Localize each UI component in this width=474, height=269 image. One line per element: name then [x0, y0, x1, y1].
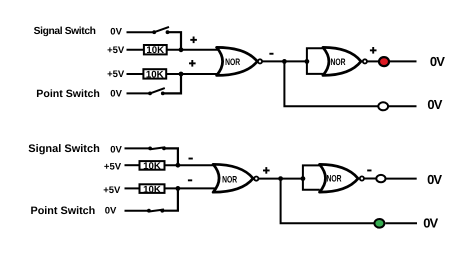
switch SW1 (signal, open) left contact: [152, 30, 156, 34]
wire U4 output to indicator D3: [364, 178, 376, 180]
wire node N7 branch to LED D4: [281, 179, 374, 224]
NOR gate U1 (top left): [217, 47, 258, 75]
NOR gate U4 (bottom right): [320, 164, 359, 192]
NOR gate U2 (top right): [323, 47, 361, 75]
resistor R1 10K: [144, 45, 167, 54]
resistor R4 10K: [140, 184, 165, 193]
svg-text:NOR: NOR: [225, 56, 240, 67]
svg-text:+5V: +5V: [103, 185, 121, 196]
svg-text:0V: 0V: [105, 206, 117, 217]
svg-text:Point Switch: Point Switch: [36, 88, 100, 100]
wire +5V to resistor R2: [127, 73, 145, 75]
resistor R3 10K: [140, 161, 165, 170]
svg-text:10K: 10K: [146, 45, 164, 56]
wire U2 output to LED D1: [367, 60, 378, 62]
svg-text:Signal Switch: Signal Switch: [34, 26, 96, 37]
switch SW2 (point, open) left contact: [148, 92, 152, 96]
switch SW4 right contact: [160, 209, 164, 213]
switch SW3 blade (closed): [150, 147, 165, 149]
svg-text:NOR: NOR: [330, 56, 345, 67]
wire 0V to switch SW3: [125, 147, 151, 149]
minus sign at U3 input 2: [188, 179, 192, 181]
wire SW2 to node N2: [163, 74, 181, 93]
svg-text:0V: 0V: [427, 97, 442, 112]
svg-text:Signal Switch: Signal Switch: [28, 143, 100, 155]
svg-text:0V: 0V: [110, 27, 122, 38]
wire indicator D3 to 0V: [386, 178, 417, 180]
minus sign at U3 input 1: [189, 158, 193, 160]
wire U3 output to U4 input node: [259, 178, 302, 180]
resistor R2 10K: [143, 69, 166, 78]
svg-text:10K: 10K: [146, 69, 164, 80]
svg-text:0V: 0V: [423, 216, 438, 231]
node N8 dot at U4 input tie: [301, 176, 306, 181]
NOR gate U3 (bottom left): [213, 164, 253, 192]
svg-text:Point Switch: Point Switch: [31, 205, 96, 217]
svg-text:10K: 10K: [143, 184, 161, 195]
svg-text:+5V: +5V: [104, 162, 122, 173]
svg-text:NOR: NOR: [326, 173, 341, 184]
plus sign at U1 input 1: [190, 37, 197, 44]
wire resistor R3 to NOR U3 input 1: [164, 164, 218, 166]
U4 output bubble: [360, 176, 364, 180]
svg-text:0V: 0V: [110, 89, 122, 100]
wire 0V to switch SW2: [127, 92, 151, 94]
indicator D2 (open / off): [378, 102, 388, 110]
wire resistor R4 to NOR U3 input 2: [164, 187, 218, 189]
wire +5V to resistor R3: [125, 164, 141, 166]
wire indicator D2 to 0V: [389, 105, 417, 107]
wire +5V to resistor R4: [125, 187, 141, 189]
svg-text:+5V: +5V: [107, 45, 125, 56]
svg-text:10K: 10K: [143, 161, 161, 172]
svg-text:0V: 0V: [427, 172, 442, 187]
node N2 junction dot: [179, 72, 184, 77]
minus sign at U4 output: [367, 170, 371, 172]
switch SW2 right contact: [161, 92, 165, 96]
svg-text:0V: 0V: [430, 54, 445, 69]
switch SW1 blade (open): [154, 27, 169, 32]
wire 0V to switch SW4: [125, 210, 149, 212]
svg-text:+5V: +5V: [107, 69, 125, 80]
wire SW3 to node N5: [164, 148, 178, 165]
plus sign at U1 input 2: [189, 60, 196, 67]
wire U4 input tie bracket: [303, 165, 320, 189]
switch SW3 (signal, closed) left contact: [148, 147, 152, 151]
wire U1 output to U2 input node: [262, 60, 306, 62]
switch SW4 blade (closed): [149, 210, 164, 212]
switch SW1 right contact: [166, 30, 170, 34]
node N4 dot at U2 input tie: [305, 59, 310, 64]
minus sign at U1 output: [269, 53, 273, 55]
node N7 junction dot (branch to green indicator): [278, 176, 283, 181]
switch SW3 right contact: [162, 147, 166, 151]
node N3 junction dot (branch to open indicator): [282, 59, 287, 64]
node N6 junction dot: [176, 186, 181, 191]
wire node N3 branch to open indicator: [284, 61, 378, 106]
switch SW4 (point, closed) left contact: [147, 209, 151, 213]
wire resistor R2 to NOR U1 input 2: [166, 73, 222, 75]
wire 0V to switch SW1: [127, 31, 155, 33]
plus sign at U2 output: [370, 47, 377, 54]
switch SW2 blade (open): [150, 88, 165, 93]
wire LED D4 to 0V: [386, 222, 418, 224]
indicator D3 (open / off): [376, 175, 385, 182]
LED D1 (red, on): [379, 57, 389, 66]
U2 output bubble: [363, 59, 367, 63]
wire LED D1 to 0V: [390, 60, 417, 62]
node N1 junction dot: [179, 47, 184, 52]
svg-text:NOR: NOR: [222, 173, 237, 184]
wire SW1 to node N1: [168, 32, 182, 50]
wire resistor R1 to NOR U1 input 1: [166, 49, 221, 51]
svg-text:0V: 0V: [110, 144, 122, 155]
wire SW4 to node N6: [162, 188, 178, 210]
plus sign at U3 output: [263, 167, 270, 174]
node N5 junction dot: [176, 163, 181, 168]
U1 output bubble: [258, 59, 262, 63]
LED D4 (green, on): [374, 219, 384, 228]
wire U2 input tie bracket: [307, 48, 323, 74]
wire +5V to resistor R1: [127, 49, 145, 51]
U3 output bubble: [254, 177, 258, 181]
